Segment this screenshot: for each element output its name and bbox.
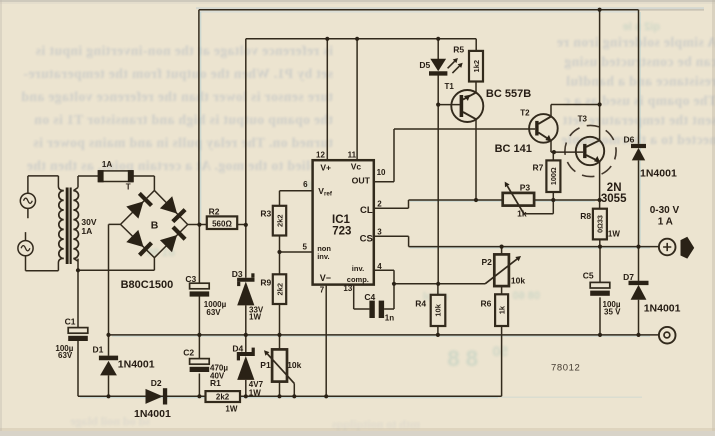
svg-text:1A: 1A (102, 160, 112, 169)
svg-text:08 60: 08 60 (512, 290, 540, 302)
svg-text:C1: C1 (65, 316, 76, 326)
svg-text:R1: R1 (210, 378, 221, 388)
svg-text:set by P1. When the output fro: set by P1. When the output from the temp… (23, 66, 333, 81)
svg-text:BC 557B: BC 557B (486, 88, 531, 100)
svg-text:is reference voltage at the no: is reference voltage at the non-invertin… (35, 43, 333, 58)
svg-text:1k: 1k (497, 305, 506, 314)
svg-text:2k2: 2k2 (275, 283, 284, 296)
svg-text:OUT: OUT (352, 176, 371, 186)
svg-text:R9: R9 (260, 277, 271, 287)
svg-text:IC1: IC1 (332, 214, 351, 226)
svg-text:8 8: 8 8 (447, 346, 478, 371)
svg-text:A simple soldering iron re: A simple soldering iron re (557, 35, 715, 50)
svg-text:R8: R8 (580, 211, 591, 221)
svg-text:D1: D1 (93, 344, 104, 354)
svg-text:3055: 3055 (601, 193, 627, 205)
svg-text:BC 141: BC 141 (495, 143, 532, 155)
svg-text:R2: R2 (209, 206, 220, 216)
svg-text:D4: D4 (232, 344, 243, 354)
svg-text:D3: D3 (232, 269, 243, 279)
svg-text:1N4001: 1N4001 (118, 359, 155, 371)
svg-text:R5: R5 (453, 44, 464, 54)
svg-text:723: 723 (332, 226, 351, 238)
svg-text:inv.: inv. (352, 264, 364, 273)
svg-text:D5: D5 (419, 60, 430, 70)
svg-text:T3: T3 (578, 115, 588, 124)
svg-text:78012: 78012 (551, 362, 580, 373)
svg-text:CL: CL (360, 205, 373, 216)
svg-text:1W: 1W (249, 388, 261, 397)
svg-text:1n: 1n (385, 313, 394, 322)
svg-text:inv.: inv. (317, 252, 329, 261)
svg-text:1 A: 1 A (658, 217, 673, 228)
svg-text:P3: P3 (520, 182, 531, 192)
svg-text:1k: 1k (517, 209, 527, 219)
svg-text:1W: 1W (249, 313, 261, 322)
svg-text:63V: 63V (206, 308, 221, 317)
svg-text:T: T (126, 183, 131, 192)
svg-text:The opamp is used as a c: The opamp is used as a c (564, 93, 715, 108)
svg-text:5: 5 (303, 243, 308, 252)
svg-text:T1: T1 (445, 82, 455, 91)
svg-text:D7: D7 (623, 272, 634, 282)
svg-text:0-30 V: 0-30 V (650, 205, 680, 216)
svg-text:T2: T2 (520, 108, 530, 117)
svg-text:35 V: 35 V (604, 307, 621, 316)
svg-text:Vc: Vc (351, 162, 362, 172)
svg-text:3: 3 (377, 228, 382, 237)
svg-text:2N: 2N (607, 182, 622, 194)
svg-text:V−: V− (320, 273, 331, 283)
svg-text:1W: 1W (608, 229, 620, 238)
svg-text:mth to noitqilqqs: mth to noitqilqqs (332, 417, 420, 431)
svg-text:can be constructed using: can be constructed using (564, 54, 715, 69)
svg-text:12: 12 (316, 150, 325, 159)
svg-text:R3: R3 (260, 209, 271, 219)
svg-text:10k: 10k (287, 360, 301, 370)
svg-text:2: 2 (377, 199, 382, 208)
svg-text:D2: D2 (151, 378, 162, 388)
svg-text:1k2: 1k2 (472, 60, 481, 73)
svg-text:C4: C4 (364, 292, 375, 302)
svg-text:qi2 s le: qi2 s le (623, 21, 660, 33)
svg-text:10: 10 (377, 168, 386, 177)
svg-text:10k: 10k (511, 276, 525, 286)
svg-text:50: 50 (492, 343, 508, 359)
svg-text:P1: P1 (260, 360, 271, 370)
svg-text:ture sensor is lower than the: ture sensor is lower than the reference … (21, 89, 333, 104)
svg-text:1N4001: 1N4001 (640, 167, 677, 179)
svg-text:11: 11 (348, 150, 357, 159)
svg-text:100Ω: 100Ω (549, 167, 558, 185)
svg-text:the opamp output is high and t: the opamp output is high and transistor … (34, 112, 333, 127)
svg-text:R6: R6 (481, 299, 492, 309)
svg-text:R7: R7 (533, 162, 544, 172)
svg-text:13: 13 (343, 284, 352, 293)
svg-text:0Ω33: 0Ω33 (595, 215, 604, 233)
svg-text:turned on. The relay pulls in: turned on. The relay pulls in and mains … (33, 135, 333, 150)
svg-text:560Ω: 560Ω (212, 220, 232, 229)
svg-text:2k2: 2k2 (275, 214, 284, 227)
svg-text:C5: C5 (583, 270, 594, 280)
svg-text:10k: 10k (434, 303, 443, 316)
svg-text:D6: D6 (624, 134, 635, 144)
svg-text:B: B (151, 220, 159, 232)
svg-text:2k2: 2k2 (216, 393, 230, 402)
svg-text:1W: 1W (225, 405, 237, 414)
svg-text:R4: R4 (415, 299, 426, 309)
svg-text:1N4001: 1N4001 (644, 303, 681, 315)
svg-text:B80C1500: B80C1500 (121, 279, 174, 291)
svg-text:6: 6 (303, 180, 308, 189)
svg-text:CS: CS (360, 233, 373, 244)
svg-text:comp.: comp. (347, 275, 369, 284)
svg-text:C2: C2 (183, 347, 194, 357)
svg-text:7: 7 (320, 286, 325, 295)
svg-text:C3: C3 (185, 274, 196, 284)
svg-text:V+: V+ (320, 162, 331, 172)
svg-text:4: 4 (377, 262, 382, 271)
svg-text:1N4001: 1N4001 (134, 408, 171, 420)
svg-text:P2: P2 (482, 257, 493, 267)
svg-text:1A: 1A (81, 226, 92, 236)
svg-text:applied to the mog. At a certa: applied to the mog. At a certain point, … (27, 158, 333, 173)
svg-text:63V: 63V (58, 351, 73, 360)
